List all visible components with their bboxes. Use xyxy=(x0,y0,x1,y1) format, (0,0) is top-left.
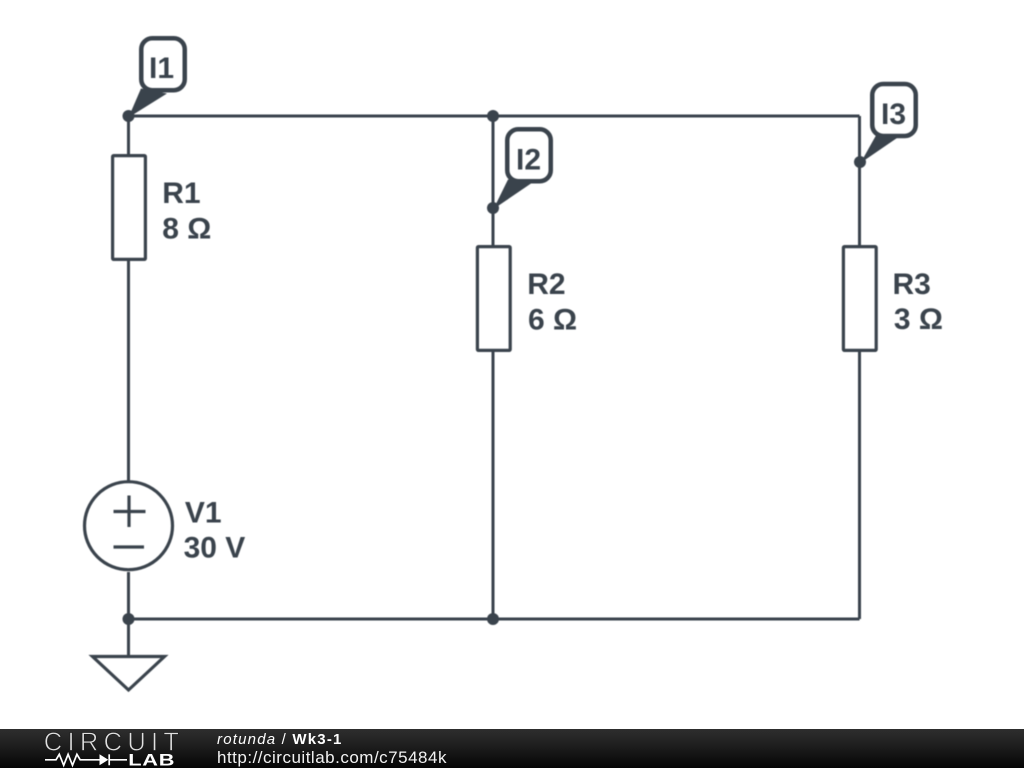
wire left branch upper xyxy=(127,116,130,154)
svg-text:30 V: 30 V xyxy=(184,531,246,564)
resistor R2 xyxy=(477,247,510,351)
resistor R3 xyxy=(843,247,876,351)
svg-text:LAB: LAB xyxy=(128,752,175,768)
label R1 8 Ω xyxy=(162,177,211,245)
wire middle branch lower xyxy=(492,352,495,619)
ground xyxy=(93,657,165,691)
resistor R1 xyxy=(113,156,146,260)
callout I1 xyxy=(141,38,185,90)
wire top bus xyxy=(129,115,860,118)
node dot bottom-middle junction xyxy=(487,613,499,625)
svg-text:8 Ω: 8 Ω xyxy=(162,212,211,245)
voltage source V1 xyxy=(85,482,173,570)
callout I1 tail xyxy=(129,89,168,118)
node dot bottom-left junction xyxy=(123,613,135,625)
label R2 6 Ω xyxy=(527,268,577,336)
node dot top-left xyxy=(123,110,135,122)
callout I3 tail xyxy=(861,135,898,164)
callout I2 tail xyxy=(494,180,532,210)
footer url text xyxy=(217,748,447,768)
callout I2 xyxy=(507,129,551,181)
svg-text:I2: I2 xyxy=(516,144,541,177)
svg-text:V1: V1 xyxy=(185,497,222,530)
wire right branch lower xyxy=(858,352,861,619)
footer CircuitLab logo xyxy=(0,729,220,768)
callout I3 xyxy=(872,84,916,136)
svg-text:R2: R2 xyxy=(527,268,565,301)
wire bottom bus xyxy=(129,618,860,621)
svg-text:I3: I3 xyxy=(881,98,906,131)
node dot I2 anchor xyxy=(487,202,499,214)
wire left branch middle xyxy=(127,261,130,482)
svg-text:R3: R3 xyxy=(893,268,931,301)
wire middle branch upper xyxy=(492,116,495,245)
label V1 30 V xyxy=(184,497,246,565)
wire left branch lower xyxy=(127,572,130,655)
svg-text:6 Ω: 6 Ω xyxy=(528,303,577,336)
footer credit text xyxy=(217,731,343,748)
svg-text:I1: I1 xyxy=(149,52,174,85)
svg-text:R1: R1 xyxy=(162,177,200,210)
node dot I3 anchor xyxy=(854,156,866,168)
footer bar xyxy=(0,729,1024,768)
wire right branch upper xyxy=(858,116,861,245)
label R3 3 Ω xyxy=(893,268,943,336)
svg-text:3 Ω: 3 Ω xyxy=(894,303,943,336)
node dot top-middle junction xyxy=(487,110,499,122)
